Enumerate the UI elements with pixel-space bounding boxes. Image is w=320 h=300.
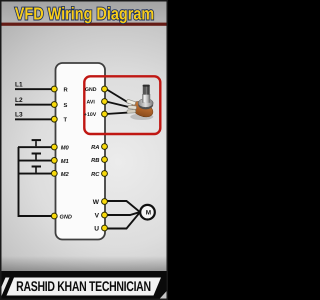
terminal S <box>51 102 57 108</box>
terminal RB <box>102 157 108 163</box>
motor M1 circle <box>140 205 155 220</box>
svg-text:L3: L3 <box>15 112 23 119</box>
background body <box>0 0 168 272</box>
terminal RA <box>102 144 108 150</box>
svg-text:RB: RB <box>91 158 99 164</box>
svg-text:T: T <box>64 118 68 124</box>
svg-text:VFD Wiring Diagram: VFD Wiring Diagram <box>15 3 154 23</box>
terminal T <box>51 116 57 122</box>
bus wire left <box>19 147 53 216</box>
VFD box U1 <box>56 63 106 240</box>
frame border <box>1 1 168 300</box>
wire M1 <box>18 160 51 162</box>
terminal W <box>102 199 108 205</box>
svg-text:+10V: +10V <box>84 112 97 118</box>
svg-text:M0: M0 <box>61 145 70 152</box>
terminal M1 <box>51 158 57 164</box>
svg-text:RA: RA <box>91 145 99 151</box>
switch S3 <box>32 166 41 173</box>
svg-text:RC: RC <box>91 171 100 178</box>
svg-text:M2: M2 <box>61 171 70 178</box>
red strip under banner <box>0 23 168 26</box>
terminal U <box>102 225 108 231</box>
svg-text:RASHID KHAN TECHNICIAN: RASHID KHAN TECHNICIAN <box>16 278 151 294</box>
svg-text:V: V <box>95 213 100 220</box>
svg-text:U: U <box>94 226 99 233</box>
svg-text:M: M <box>146 209 151 216</box>
terminal M0 <box>51 144 57 150</box>
wire GND to pot <box>106 89 129 103</box>
wire U to motor <box>106 213 140 229</box>
svg-text:L1: L1 <box>15 82 23 89</box>
svg-text:S: S <box>64 102 68 109</box>
terminal R <box>51 86 57 92</box>
svg-text:GND: GND <box>60 214 72 220</box>
wire AVI to pot <box>106 102 131 108</box>
svg-text:GND: GND <box>85 87 97 93</box>
bottom right sliver <box>159 290 169 300</box>
top banner background <box>0 0 168 23</box>
switch S2 <box>32 153 41 160</box>
wire L2 <box>15 104 54 106</box>
wire M0 <box>18 146 51 148</box>
bottom black band <box>0 271 168 300</box>
svg-text:AVI: AVI <box>87 100 96 106</box>
wire +10V to pot <box>106 113 129 115</box>
bottom white band <box>7 278 162 296</box>
wire W to motor <box>106 201 140 212</box>
wire V to motor <box>106 212 140 215</box>
svg-text:L2: L2 <box>15 97 23 104</box>
terminal GND left <box>51 213 57 219</box>
terminal GND right <box>102 86 108 92</box>
bottom white band stripe sliver <box>0 278 10 297</box>
svg-text:M1: M1 <box>61 159 69 165</box>
wire L1 <box>15 88 54 90</box>
switch S1 <box>32 139 41 146</box>
terminal AVI <box>102 99 108 105</box>
terminal M2 <box>51 171 57 177</box>
wire L3 <box>15 118 54 120</box>
terminal +10V <box>102 111 108 117</box>
terminal RC <box>102 171 108 177</box>
terminal V <box>102 212 108 218</box>
potentiometer RV1 <box>126 85 155 120</box>
svg-text:W: W <box>93 199 100 206</box>
red callout box <box>84 76 160 134</box>
wire M2 <box>18 173 51 175</box>
shadow above bottom band <box>0 256 168 272</box>
